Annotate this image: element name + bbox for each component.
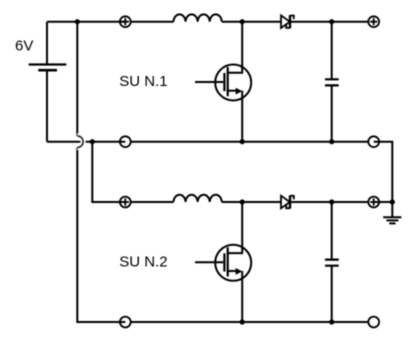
svg-text:6V: 6V xyxy=(15,37,33,54)
svg-text:SU N.2: SU N.2 xyxy=(119,254,167,271)
svg-text:SU N.1: SU N.1 xyxy=(119,73,167,90)
